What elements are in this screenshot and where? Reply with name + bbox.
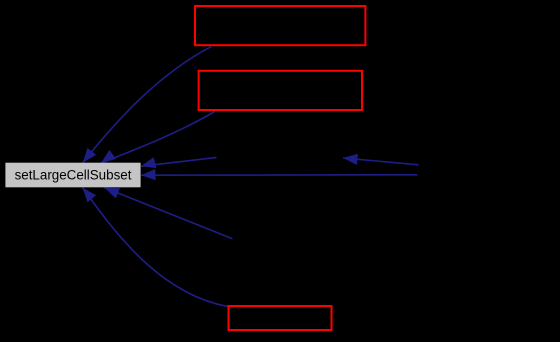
svg-text:setLargeCellSubset: setLargeCellSubset	[15, 168, 132, 183]
